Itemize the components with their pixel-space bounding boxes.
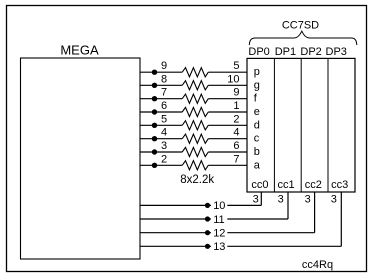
svg-text:8: 8 xyxy=(161,73,167,85)
svg-text:c: c xyxy=(254,133,260,145)
svg-text:cc0: cc0 xyxy=(251,179,268,191)
svg-text:CC7SD: CC7SD xyxy=(282,19,319,31)
svg-text:10: 10 xyxy=(227,73,239,85)
svg-text:MEGA: MEGA xyxy=(60,43,99,58)
svg-text:2: 2 xyxy=(233,113,239,125)
svg-text:3: 3 xyxy=(331,194,337,206)
svg-text:13: 13 xyxy=(213,241,225,253)
svg-text:3: 3 xyxy=(253,194,259,206)
svg-text:7: 7 xyxy=(233,153,239,165)
svg-text:cc1: cc1 xyxy=(278,179,295,191)
svg-text:8x2.2k: 8x2.2k xyxy=(180,174,214,186)
svg-text:DP0: DP0 xyxy=(248,46,269,58)
svg-text:3: 3 xyxy=(161,140,167,152)
svg-text:DP1: DP1 xyxy=(275,46,296,58)
svg-text:f: f xyxy=(254,93,258,105)
svg-text:3: 3 xyxy=(305,194,311,206)
svg-text:a: a xyxy=(254,159,261,171)
svg-text:12: 12 xyxy=(213,228,225,240)
svg-text:9: 9 xyxy=(233,87,239,99)
svg-text:DP3: DP3 xyxy=(326,46,347,58)
svg-text:p: p xyxy=(254,66,260,78)
svg-text:6: 6 xyxy=(161,100,167,112)
svg-text:9: 9 xyxy=(161,60,167,72)
svg-text:11: 11 xyxy=(213,214,224,226)
svg-text:DP2: DP2 xyxy=(300,46,321,58)
svg-text:cc3: cc3 xyxy=(331,179,348,191)
svg-text:5: 5 xyxy=(233,60,239,72)
svg-text:d: d xyxy=(254,119,260,131)
svg-text:e: e xyxy=(254,106,260,118)
svg-text:4: 4 xyxy=(161,127,167,139)
svg-text:cc2: cc2 xyxy=(305,179,322,191)
svg-text:7: 7 xyxy=(161,87,167,99)
svg-text:cc4Rq: cc4Rq xyxy=(302,259,333,271)
svg-text:6: 6 xyxy=(233,140,239,152)
svg-text:2: 2 xyxy=(161,153,167,165)
svg-text:5: 5 xyxy=(161,113,167,125)
svg-text:1: 1 xyxy=(233,100,239,112)
svg-text:b: b xyxy=(254,146,260,158)
svg-text:10: 10 xyxy=(213,200,225,212)
svg-text:3: 3 xyxy=(278,194,284,206)
svg-text:4: 4 xyxy=(233,127,239,139)
svg-text:g: g xyxy=(254,79,260,91)
